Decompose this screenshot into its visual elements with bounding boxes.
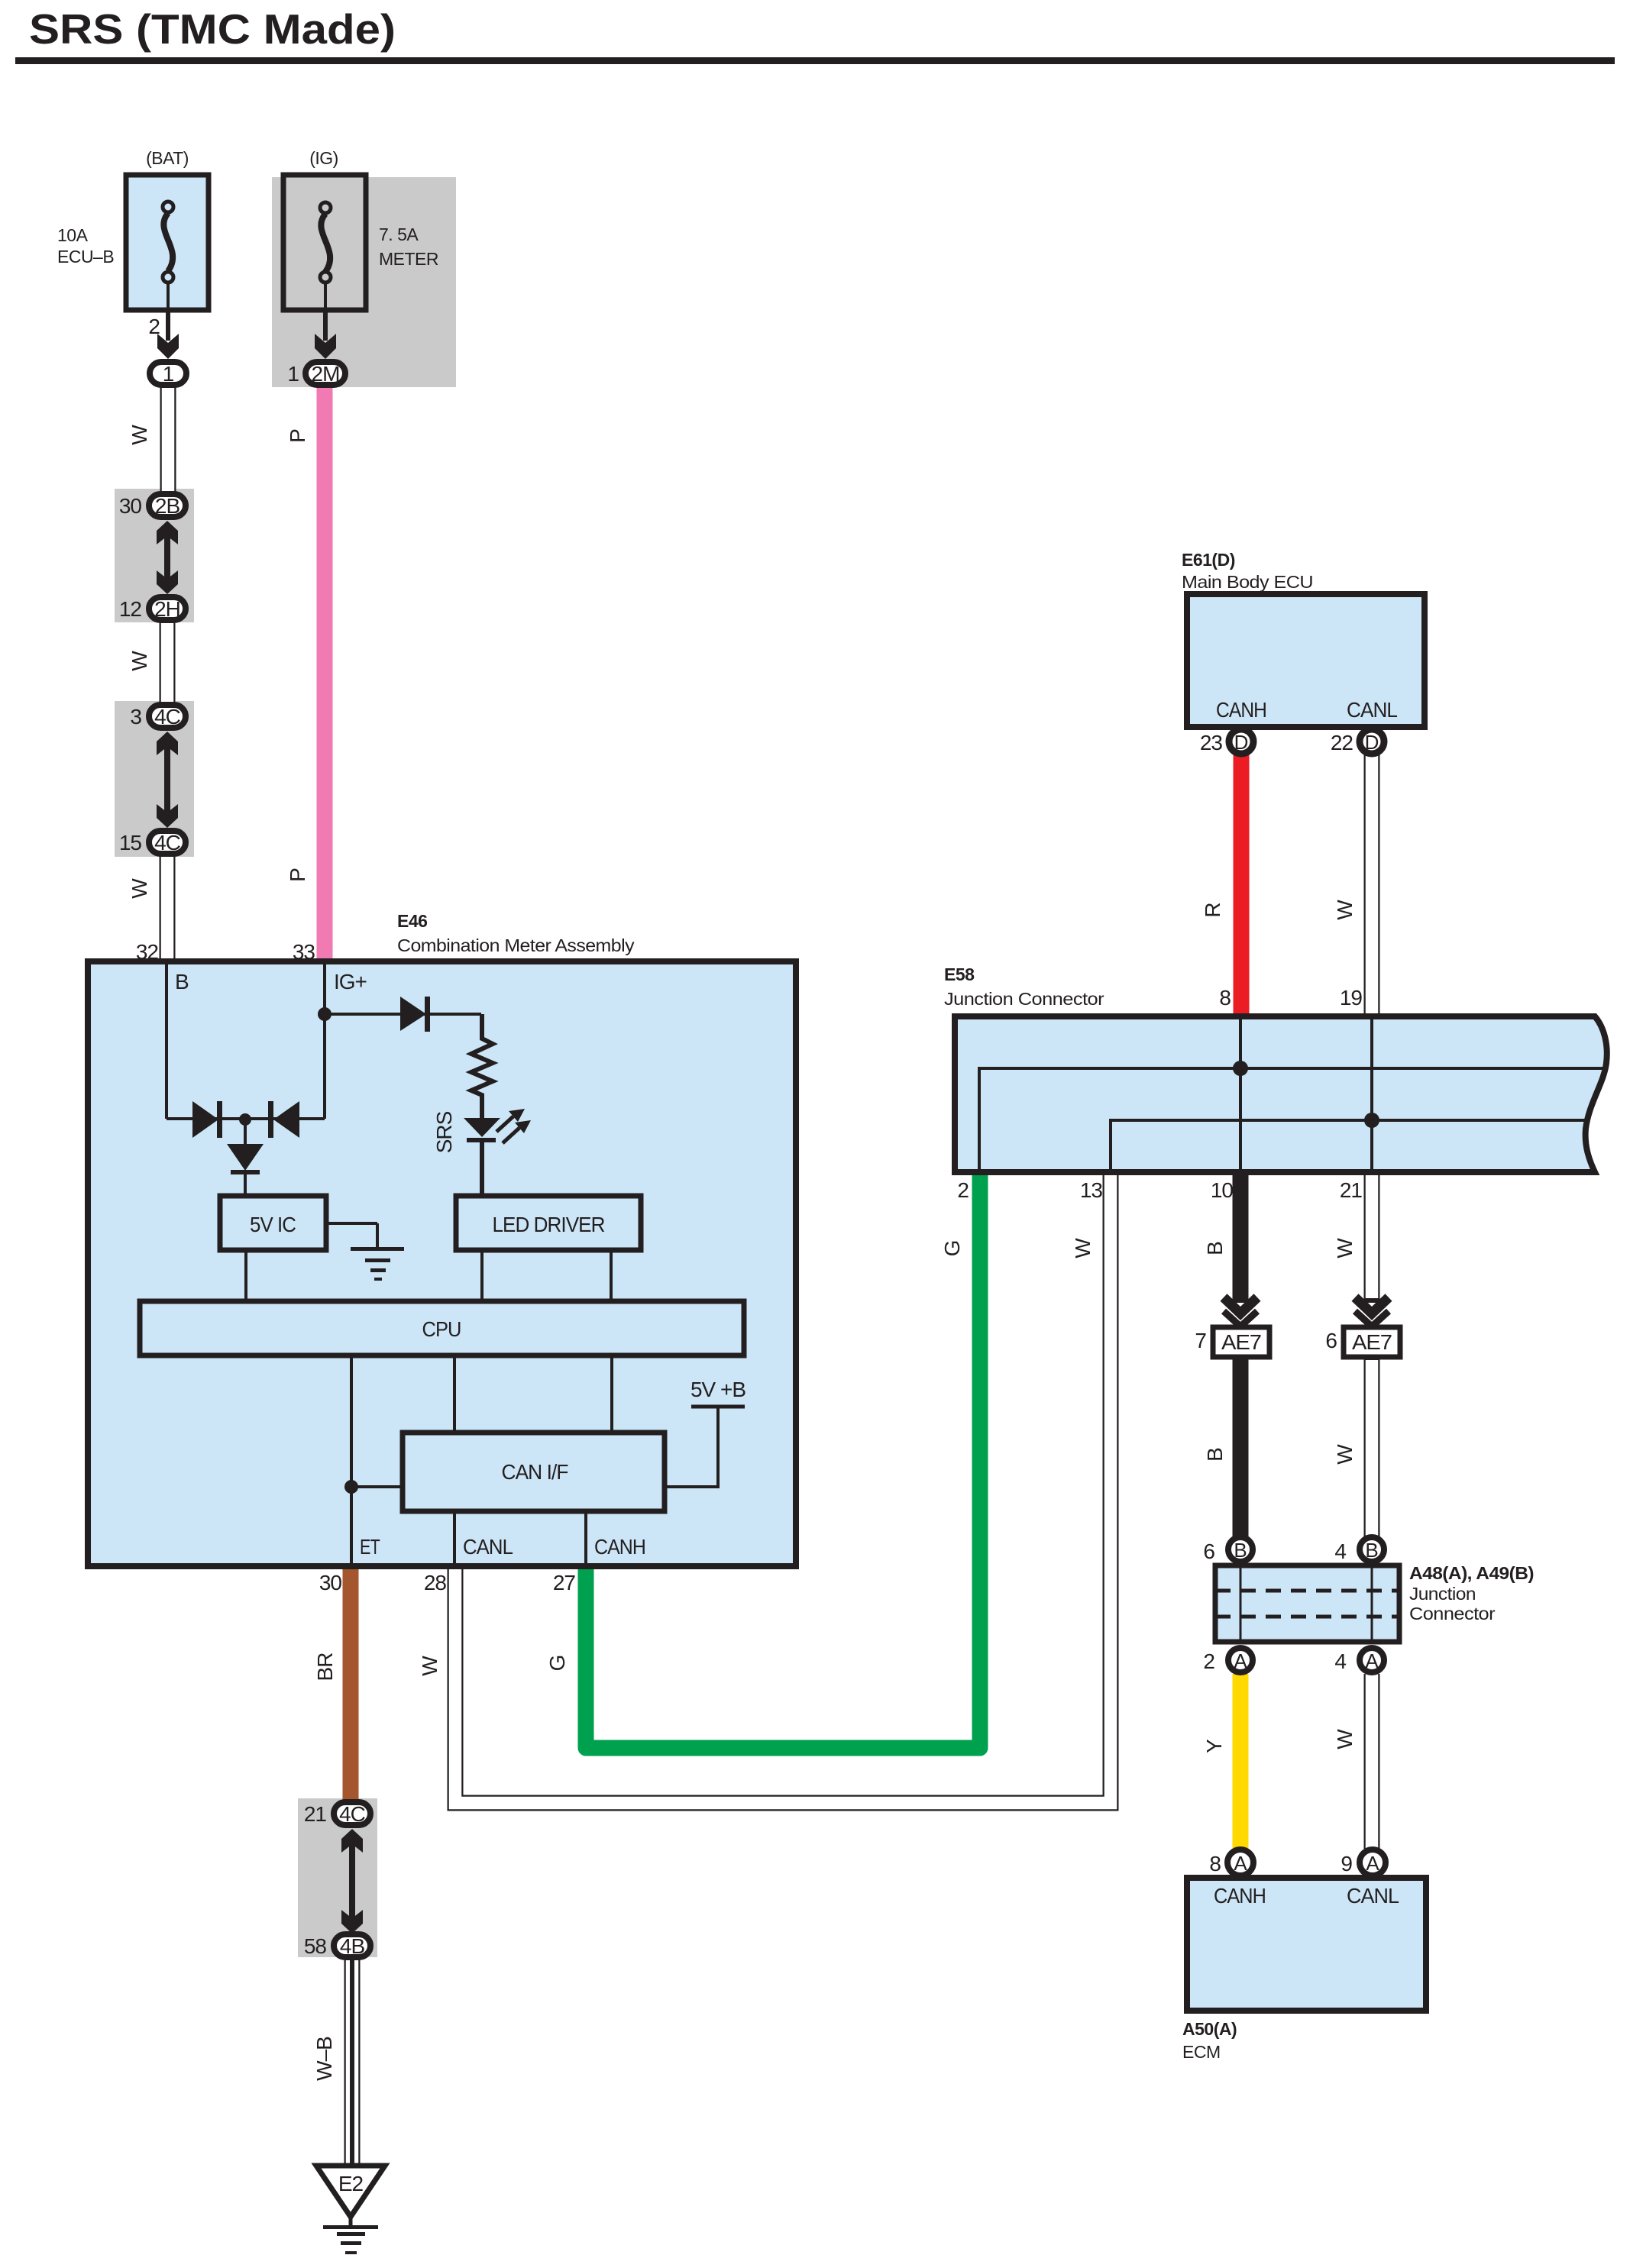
svg-text:2: 2	[1203, 1649, 1214, 1673]
svg-text:W: W	[1333, 900, 1357, 920]
svg-text:CAN I/F: CAN I/F	[502, 1460, 568, 1484]
svg-text:22: 22	[1331, 731, 1353, 754]
svg-text:30: 30	[319, 1571, 342, 1594]
svg-text:8: 8	[1209, 1852, 1221, 1875]
svg-text:58: 58	[304, 1934, 327, 1958]
svg-text:W–B: W–B	[312, 2037, 336, 2081]
svg-text:W: W	[1333, 1444, 1357, 1465]
svg-text:D: D	[1234, 731, 1249, 754]
svg-text:Combination Meter Assembly: Combination Meter Assembly	[397, 935, 635, 955]
svg-text:IG+: IG+	[334, 970, 367, 993]
svg-text:CANH: CANH	[594, 1535, 645, 1559]
svg-text:12: 12	[119, 597, 142, 621]
svg-text:E61(D): E61(D)	[1182, 550, 1235, 570]
svg-text:W: W	[418, 1656, 441, 1676]
svg-text:32: 32	[136, 940, 159, 964]
svg-text:E2: E2	[338, 2172, 364, 2195]
svg-text:4C: 4C	[339, 1802, 366, 1826]
svg-text:2: 2	[148, 315, 160, 338]
svg-text:W: W	[128, 425, 151, 445]
svg-text:4C: 4C	[154, 705, 181, 729]
svg-text:G: G	[940, 1241, 964, 1257]
svg-text:28: 28	[424, 1571, 447, 1594]
svg-text:R: R	[1201, 903, 1224, 917]
svg-text:2M: 2M	[312, 362, 340, 386]
svg-text:B: B	[1365, 1539, 1378, 1562]
svg-text:B: B	[1203, 1242, 1227, 1255]
svg-text:Main Body ECU: Main Body ECU	[1182, 572, 1313, 592]
svg-text:Y: Y	[1202, 1739, 1226, 1753]
svg-text:2: 2	[957, 1178, 969, 1202]
svg-text:CANL: CANL	[1347, 698, 1397, 722]
svg-text:P: P	[286, 429, 309, 443]
svg-text:CANL: CANL	[1347, 1884, 1399, 1908]
svg-text:3: 3	[130, 705, 141, 729]
svg-text:7. 5A: 7. 5A	[379, 225, 419, 244]
svg-text:CPU: CPU	[422, 1317, 461, 1341]
svg-text:5V +B: 5V +B	[690, 1378, 745, 1401]
svg-text:23: 23	[1200, 731, 1223, 754]
svg-text:8: 8	[1219, 986, 1231, 1010]
svg-text:21: 21	[1340, 1178, 1363, 1202]
svg-text:A: A	[1365, 1649, 1379, 1672]
svg-text:7: 7	[1195, 1329, 1206, 1352]
svg-text:1: 1	[163, 362, 174, 386]
svg-text:W: W	[128, 651, 151, 671]
svg-text:10A: 10A	[57, 225, 89, 245]
svg-text:G: G	[545, 1656, 569, 1672]
svg-text:A48(A), A49(B): A48(A), A49(B)	[1409, 1563, 1534, 1583]
svg-text:METER: METER	[379, 249, 438, 269]
svg-text:W: W	[1071, 1238, 1095, 1258]
svg-text:AE7: AE7	[1221, 1330, 1261, 1354]
svg-text:Junction Connector: Junction Connector	[944, 989, 1104, 1009]
svg-text:A50(A): A50(A)	[1182, 2019, 1237, 2039]
svg-text:19: 19	[1340, 986, 1363, 1010]
svg-text:27: 27	[553, 1571, 576, 1594]
svg-text:B: B	[175, 970, 189, 993]
svg-text:W: W	[1333, 1238, 1357, 1258]
svg-text:AE7: AE7	[1352, 1330, 1392, 1354]
svg-text:Junction: Junction	[1409, 1584, 1476, 1604]
svg-text:9: 9	[1341, 1852, 1352, 1875]
svg-text:CANH: CANH	[1214, 1884, 1266, 1908]
svg-text:A: A	[1234, 1852, 1247, 1875]
svg-text:ET: ET	[360, 1535, 380, 1559]
svg-text:(IG): (IG)	[309, 148, 338, 168]
svg-text:ECU–B: ECU–B	[57, 247, 114, 267]
svg-text:W: W	[128, 878, 151, 899]
svg-text:4: 4	[1334, 1649, 1346, 1673]
svg-text:A: A	[1234, 1649, 1247, 1672]
svg-text:CANH: CANH	[1216, 698, 1266, 722]
svg-text:4C: 4C	[154, 831, 181, 855]
svg-text:30: 30	[119, 494, 142, 518]
svg-text:LED DRIVER: LED DRIVER	[493, 1213, 605, 1236]
svg-text:15: 15	[119, 831, 142, 855]
svg-text:SRS (TMC Made): SRS (TMC Made)	[29, 5, 396, 53]
svg-text:A: A	[1366, 1852, 1379, 1875]
svg-text:21: 21	[304, 1802, 327, 1826]
svg-text:10: 10	[1211, 1178, 1234, 1202]
svg-text:E58: E58	[944, 964, 975, 984]
svg-text:5V IC: 5V IC	[250, 1213, 296, 1236]
svg-text:ECM: ECM	[1182, 2042, 1221, 2062]
svg-text:2B: 2B	[155, 494, 180, 518]
svg-text:CANL: CANL	[463, 1535, 513, 1559]
svg-text:4B: 4B	[340, 1934, 365, 1958]
svg-text:(BAT): (BAT)	[146, 148, 189, 168]
svg-text:6: 6	[1325, 1329, 1337, 1352]
svg-text:B: B	[1203, 1448, 1227, 1462]
svg-text:P: P	[286, 868, 309, 882]
svg-text:B: B	[1234, 1539, 1247, 1562]
svg-text:E46: E46	[397, 911, 427, 931]
svg-text:2H: 2H	[154, 597, 180, 621]
svg-text:W: W	[1333, 1729, 1357, 1749]
svg-text:Connector: Connector	[1409, 1604, 1496, 1623]
svg-text:4: 4	[1334, 1539, 1346, 1563]
svg-text:13: 13	[1080, 1178, 1103, 1202]
svg-text:D: D	[1365, 731, 1379, 754]
svg-text:1: 1	[287, 362, 299, 386]
svg-text:BR: BR	[313, 1653, 337, 1682]
svg-text:6: 6	[1203, 1539, 1214, 1563]
svg-text:SRS: SRS	[432, 1111, 456, 1153]
svg-text:33: 33	[293, 940, 315, 964]
